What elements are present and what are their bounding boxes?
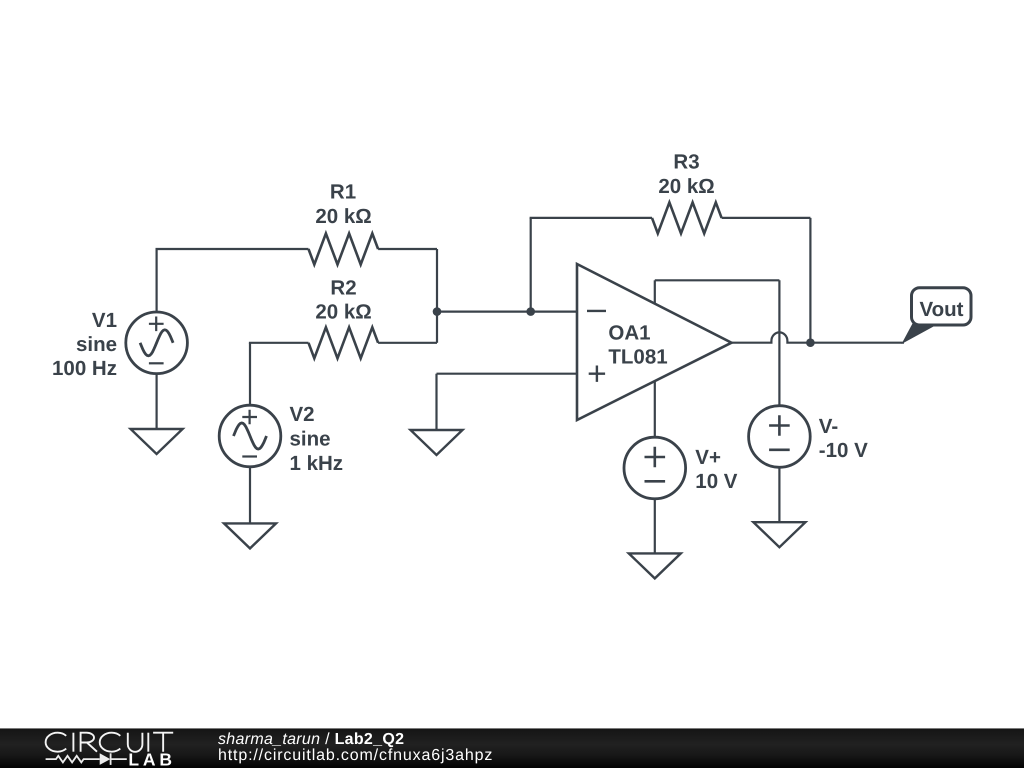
- node output junction dot: [806, 338, 815, 347]
- svg-text:100 Hz: 100 Hz: [52, 357, 117, 380]
- wire R3 top right horizontal: [722, 217, 811, 219]
- svg-text:OA1: OA1: [608, 322, 650, 345]
- voltage source V1: [126, 312, 188, 374]
- svg-text:sine: sine: [76, 333, 117, 356]
- svg-text:10 V: 10 V: [695, 470, 737, 493]
- wire V- pin horizontal: [655, 279, 780, 281]
- voltage source V-: [749, 406, 811, 468]
- svg-text:1 kHz: 1 kHz: [290, 452, 344, 475]
- wire R3 right vertical to output: [809, 218, 811, 343]
- svg-text:V-: V-: [819, 415, 838, 438]
- svg-text:V2: V2: [290, 403, 315, 426]
- svg-text:-10 V: -10 V: [819, 439, 868, 462]
- wire R3 top left horizontal: [530, 217, 652, 219]
- svg-text:LAB: LAB: [128, 749, 175, 768]
- footer bar: [0, 728, 1024, 768]
- wire R1 right lead: [378, 248, 437, 250]
- svg-text:20 kΩ: 20 kΩ: [315, 301, 371, 324]
- wire V+ pin vertical: [654, 381, 656, 437]
- wire V+ to ground: [654, 499, 656, 554]
- wire R2 left lead: [249, 342, 309, 344]
- logo letter I: [72, 733, 74, 752]
- wire R2 right lead: [378, 342, 437, 344]
- svg-text:20 kΩ: 20 kΩ: [315, 205, 371, 228]
- logo letter C: [46, 733, 67, 752]
- wire V- to ground: [778, 467, 780, 522]
- CircuitLab logo: [30, 728, 190, 768]
- resistor R2: [309, 327, 379, 358]
- logo letter I: [147, 733, 149, 752]
- wire V2 vertical: [249, 343, 251, 406]
- logo letter R: [81, 733, 97, 752]
- ground under V2: [224, 523, 276, 548]
- wire node to inverting input: [437, 311, 577, 313]
- logo letter T: [153, 733, 173, 752]
- wire V- pin stub up from op-amp: [654, 280, 656, 304]
- op-amp minus input symbol: [587, 310, 606, 312]
- voltage source V2: [219, 405, 281, 467]
- logo resistor squiggle: [46, 753, 127, 765]
- ground under V1: [131, 429, 183, 454]
- logo letter U: [128, 733, 143, 752]
- wire top horizontal to R1: [156, 248, 309, 250]
- wire V1 to ground: [156, 374, 158, 429]
- ground at noninverting input: [411, 430, 463, 455]
- svg-text:20 kΩ: 20 kΩ: [658, 175, 714, 198]
- node Vout flag tail: [902, 324, 940, 345]
- svg-text:R3: R3: [673, 151, 699, 174]
- svg-text:V1: V1: [92, 309, 117, 332]
- ground under V-: [753, 522, 805, 547]
- svg-text:TL081: TL081: [608, 345, 667, 368]
- wire V2 to ground: [249, 467, 251, 524]
- voltage source V+: [624, 437, 686, 499]
- wire noninverting input horizontal: [437, 373, 578, 375]
- op-amp plus input symbol: [589, 366, 605, 382]
- wire output with hop: [732, 332, 905, 342]
- svg-text:R2: R2: [330, 277, 356, 300]
- svg-text:Vout: Vout: [919, 298, 963, 321]
- svg-text:V+: V+: [695, 446, 721, 469]
- node B junction dot: [526, 307, 535, 316]
- footer url text: [218, 748, 493, 764]
- wire V- pin vertical down: [778, 280, 780, 405]
- svg-text:sine: sine: [290, 428, 331, 451]
- logo letter C: [100, 733, 121, 752]
- wire R2 right vertical to node: [436, 312, 438, 343]
- ground under V+: [629, 553, 681, 578]
- op-amp U1 triangle: [577, 264, 732, 420]
- wire right vertical R1 to node: [436, 249, 438, 312]
- svg-text:R1: R1: [330, 181, 356, 204]
- node Vout flag box: [912, 288, 972, 325]
- wire R3 left vertical: [530, 218, 532, 312]
- resistor R3: [652, 202, 722, 233]
- logo diode triangle: [100, 753, 111, 765]
- wire noninverting ground vertical: [435, 374, 437, 430]
- resistor R1: [309, 234, 379, 265]
- wire V1 top vertical: [156, 249, 158, 312]
- node A junction dot: [433, 307, 442, 316]
- footer credit text: [218, 732, 404, 748]
